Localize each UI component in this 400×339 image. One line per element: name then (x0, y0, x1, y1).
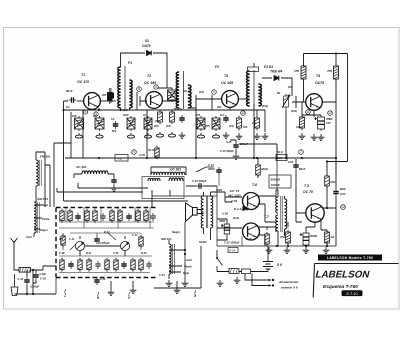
svg-text:4: 4 (155, 85, 157, 89)
svg-text:T3: T3 (224, 74, 228, 78)
svg-text:25MF: 25MF (325, 117, 333, 121)
transistor T1 (84, 93, 101, 110)
title block box (313, 264, 398, 298)
capacitor C-29 on edge (94, 277, 99, 285)
svg-text:T2: T2 (147, 74, 151, 78)
resistor R4 400 dark (107, 92, 113, 101)
svg-text:10K: 10K (296, 126, 301, 129)
resistor R1 under T1 (75, 116, 84, 131)
resistor tuner row1 7 (118, 209, 122, 223)
capacitor tuner row1 11 (150, 213, 155, 221)
svg-text:R-9: R-9 (59, 238, 64, 241)
wire x336 lower column (335, 159, 337, 246)
ground under T4 col (311, 134, 318, 140)
wire C1 input drop (64, 101, 69, 201)
wire T2 base bar (140, 88, 172, 106)
svg-text:(R7): (R7) (205, 125, 210, 128)
wire tuner mid links (63, 233, 141, 250)
svg-text:12: 12 (341, 205, 345, 209)
wire AM204 core (37, 202, 39, 233)
capacitor 0.04MkF right (333, 189, 338, 197)
capacitor C-17 (216, 167, 221, 175)
svg-text:T-6: T-6 (252, 183, 257, 187)
wire T7 collector (258, 227, 276, 232)
svg-text:OC 170: OC 170 (77, 80, 89, 84)
trimmer box atop F3 (248, 67, 259, 72)
svg-text:MkF: MkF (340, 187, 346, 191)
svg-text:(R-1): (R-1) (277, 151, 283, 154)
wire T4 base col (301, 102, 303, 115)
wire FM101 top lead (36, 152, 45, 160)
ground bottom x237 (234, 277, 241, 283)
svg-text:7: 7 (300, 150, 302, 154)
svg-text:+: + (300, 233, 302, 237)
wire mid h192 (57, 188, 143, 192)
connector block (242, 269, 251, 274)
resistor R-30 box on bus (115, 155, 128, 162)
resistor R6 under T2 (144, 116, 152, 131)
bus test point 7 (299, 150, 304, 155)
svg-text:Alimentación: Alimentación (278, 280, 299, 284)
resistor 47K right (334, 64, 339, 81)
svg-text:(C6): (C6) (166, 125, 171, 128)
svg-text:10Ω: 10Ω (277, 156, 283, 160)
electrolytic 100MF (300, 231, 309, 247)
svg-text:Negro: Negro (172, 230, 180, 234)
oscillator coil FM 101 (36, 160, 38, 186)
electrolytic 25MF 15V (315, 115, 325, 131)
resistor R9 row (170, 110, 175, 124)
wire output transformer leads (276, 190, 285, 246)
ground bottom x111 (108, 289, 115, 295)
svg-text:(R-10): (R-10) (148, 149, 155, 152)
black model bar (318, 255, 382, 261)
transformer OC 301 frame (142, 177, 184, 199)
svg-text:(R14): (R14) (291, 110, 297, 113)
wire tuner diag (70, 233, 116, 250)
svg-text:Verde: Verde (42, 217, 50, 221)
svg-text:6nF: 6nF (112, 129, 117, 133)
transformer OC 301 primary (151, 172, 185, 175)
wire tuner h272 (59, 272, 150, 274)
svg-text:AM 204: AM 204 (36, 197, 48, 201)
resistor R11 under T3 (212, 116, 220, 131)
svg-text:Verde: Verde (184, 265, 192, 269)
ground under R10 (197, 133, 204, 138)
wire T8 emitter (321, 219, 327, 232)
svg-text:60nF: 60nF (66, 89, 73, 93)
svg-text:TKB 4/4: TKB 4/4 (270, 70, 282, 74)
svg-text:Azul: Azul (185, 258, 192, 262)
wire T8 collector (322, 162, 336, 209)
svg-text:(C5): (C5) (199, 91, 204, 94)
wire 320 links (257, 158, 259, 178)
svg-text:Negro: Negro (40, 228, 48, 232)
svg-text:D1: D1 (145, 39, 149, 43)
svg-text:MkrF: MkrF (299, 167, 306, 171)
ground x185 bottom (182, 280, 189, 286)
svg-text:exterior 9 V: exterior 9 V (281, 286, 299, 290)
svg-text:2K2: 2K2 (216, 106, 222, 109)
wire AC291 leads (74, 174, 114, 178)
wire af bottom rail (217, 245, 336, 247)
capacitor C6 row (223, 115, 228, 123)
wire T1 collector to F1 (100, 100, 116, 102)
test point 12 right (341, 205, 346, 210)
wire diagonal mid (196, 167, 214, 172)
resistor tuner row2 0 (60, 258, 64, 272)
svg-text:(R4): (R4) (154, 125, 159, 128)
wire OC301 down leads (151, 167, 186, 207)
resistor under T4 (300, 115, 305, 130)
transformer OC 301 sec b (169, 178, 183, 181)
wire pot to bus (285, 110, 287, 158)
wire T3 collector to F3 (238, 98, 249, 100)
diode D-4 symbol (243, 207, 247, 211)
electrolytic 25MF AF (221, 222, 230, 236)
wire vert x196 (195, 110, 197, 158)
wire tuner h233 (70, 232, 140, 234)
wire box feed (55, 278, 57, 294)
test point 12 at T4 (328, 111, 333, 116)
svg-text:OA79: OA79 (142, 44, 151, 48)
ground under R12 (236, 133, 243, 139)
wire af component links (267, 222, 327, 246)
wire battery top lead (267, 246, 269, 262)
capacitor C-19 (24, 277, 29, 285)
svg-text:15V: 15V (326, 121, 331, 125)
wire switch column (216, 250, 218, 258)
ground bottom x220 (217, 280, 224, 286)
wire T4 emitter branch (302, 115, 321, 117)
transistor T3 (222, 91, 239, 108)
wire antenna caps net (15, 270, 57, 294)
resistor tuner row1 6 (110, 209, 114, 223)
wire mark c arrow (129, 292, 130, 298)
svg-text:10Ω: 10Ω (330, 180, 336, 184)
resistor R-1 box on bus (276, 155, 287, 161)
wire vert x137 (136, 92, 138, 110)
wire GW101 leads (169, 240, 185, 279)
IF transformer F1 (118, 66, 132, 109)
svg-text:C-28: C-28 (59, 252, 65, 255)
wire c16 link (186, 185, 217, 187)
choke GW 101 (169, 244, 171, 274)
resistor tuner row1 10 (144, 209, 148, 223)
ground AF x306 (303, 247, 310, 253)
resistor R10 under T3 (197, 116, 205, 131)
svg-text:40nF: 40nF (122, 114, 129, 117)
resistor tuner row1 0 (60, 209, 64, 223)
resistor 1ohm (325, 230, 330, 245)
svg-text:Azul: Azul (25, 235, 32, 239)
ferrite antenna rod (19, 268, 31, 273)
svg-text:R-12: R-12 (104, 231, 110, 234)
svg-text:1K5: 1K5 (243, 126, 248, 129)
driver transformer secondary (211, 196, 213, 228)
test point 6 at T1 (83, 110, 87, 114)
svg-text:512Ω: 512Ω (199, 240, 207, 244)
resistor R2 under T1 (95, 116, 104, 131)
svg-text:AC 291: AC 291 (75, 165, 87, 169)
wire mid h188 (78, 183, 148, 188)
svg-text:(6-8): (6-8) (233, 216, 239, 220)
svg-text:C1: C1 (66, 105, 70, 109)
tuning gang capacitor right (120, 241, 129, 250)
driver transformer primary (201, 196, 203, 228)
wire 25MF links (217, 219, 227, 240)
wire x217 column (216, 186, 218, 246)
wire gang link (80, 236, 125, 256)
resistor R16 mid (255, 116, 260, 130)
capacitor C-16 300pF (196, 183, 204, 188)
ground x265 (262, 133, 269, 139)
wire tuner h228 (59, 227, 154, 229)
capacitor C2 6nF (113, 121, 118, 129)
capacitor tuner row1 8 (126, 213, 131, 221)
svg-text:(C9): (C9) (229, 125, 234, 128)
wire GW101 core (172, 244, 174, 274)
wire vert x99 (98, 108, 100, 110)
wire F1 top to D1 (121, 53, 145, 67)
capacitor C1 60nF (69, 97, 77, 102)
wire x54 top (54, 142, 71, 144)
wire vert x265 (264, 110, 266, 132)
test point 4 at T2 top (154, 85, 158, 89)
wire c17 drop (218, 175, 220, 186)
svg-text:C-19: C-19 (18, 277, 24, 281)
wire mark b arrow (98, 292, 99, 298)
ground AF x287 (284, 247, 291, 253)
ground under R2 (96, 133, 103, 138)
wire F3 trimmer box lead (253, 63, 255, 67)
resistor tuner mid c (139, 235, 143, 248)
svg-text:12: 12 (328, 111, 332, 115)
wire 47K-1 to T4 base (296, 80, 306, 102)
svg-text:R-21: R-21 (86, 252, 92, 255)
capacitor C-20 3.3pF (33, 272, 38, 280)
antenna rod symbol (11, 238, 18, 246)
wire cap2MmF link (230, 140, 277, 158)
svg-text:OC 75: OC 75 (303, 190, 313, 194)
wire F2 to T3 base (188, 95, 222, 110)
svg-text:C2: C2 (111, 117, 115, 121)
svg-text:T4: T4 (316, 74, 320, 78)
wire T4 emitter down (313, 110, 315, 115)
svg-text:C-30: C-30 (246, 237, 252, 241)
svg-text:4,7Ω: 4,7Ω (138, 153, 146, 157)
ground under R6 (144, 133, 151, 138)
ground AF x326 (323, 247, 330, 253)
svg-text:0,04: 0,04 (288, 160, 294, 164)
svg-text:11: 11 (306, 110, 310, 114)
resistor 320ohm (256, 163, 261, 177)
svg-text:C-29: C-29 (100, 278, 106, 281)
wire x185 column (184, 222, 186, 280)
svg-text:GW 101: GW 101 (161, 237, 172, 241)
svg-text:T 8: T 8 (304, 184, 309, 188)
svg-text:C-16 300pF: C-16 300pF (192, 179, 207, 183)
wire 47K-2 down (335, 79, 337, 95)
coil AC 291 (82, 171, 108, 174)
wire bottom rail (133, 246, 201, 288)
svg-text:OC 301: OC 301 (170, 168, 181, 172)
wire mid h201 (64, 200, 189, 202)
svg-text:10: 10 (241, 111, 245, 115)
svg-text:9: 9 (213, 90, 215, 94)
wire FM101 core (39, 160, 41, 186)
wire T4 collector (322, 95, 336, 176)
svg-text:T1: T1 (81, 73, 85, 77)
svg-text:9 V: 9 V (277, 263, 283, 267)
svg-text:6: 6 (85, 110, 87, 114)
svg-text:47Ω: 47Ω (279, 235, 286, 239)
test point 10 at T3 (241, 111, 246, 116)
svg-text:500/2Ω: 500/2Ω (271, 178, 281, 182)
wire FM101 bottom lead (35, 186, 37, 202)
svg-text:OC 74: OC 74 (230, 189, 239, 193)
wire x242 column (241, 236, 243, 246)
wire speaker links (197, 192, 225, 240)
ground under T4 resistor (299, 133, 306, 139)
wire F1 bottom stub (121, 108, 130, 110)
wire T6 T7 emitters (258, 204, 276, 246)
resistor R7 T2 bias (168, 88, 177, 102)
svg-text:OC75: OC75 (315, 81, 324, 85)
resistor R12 T3 col (237, 116, 242, 130)
capacitor tuner row1 5 (100, 213, 105, 221)
resistor 267 (265, 232, 270, 246)
svg-text:47K: 47K (326, 69, 333, 73)
wire T6 base (225, 192, 242, 202)
output transformer ratio box (269, 175, 291, 188)
resistor tuner mid a (61, 234, 65, 247)
svg-text:9: 9 (133, 150, 135, 154)
ground bottom x177 (174, 287, 181, 293)
power switch (217, 258, 223, 272)
wire vert x147 (146, 110, 148, 158)
transistor T2 (146, 92, 163, 109)
badge E-T-10 (342, 290, 363, 296)
wire T2 collector to F2 (162, 100, 179, 102)
resistor tuner row2 2 (78, 258, 82, 272)
wire vert x212 (211, 95, 213, 110)
wire mark d arrow (195, 290, 196, 296)
svg-text:1K: 1K (143, 114, 146, 117)
ground under C4 (179, 132, 186, 138)
output transformer secondary (285, 199, 287, 229)
svg-text:Esquema T-760: Esquema T-760 (323, 284, 358, 290)
svg-text:100MF: 100MF (310, 235, 318, 238)
external supply terminal 2 (266, 285, 270, 287)
svg-text:+: + (315, 117, 317, 121)
driver transformer core (206, 196, 207, 228)
svg-text:3,3pF: 3,3pF (39, 272, 46, 276)
svg-text:25n: 25n (177, 108, 183, 111)
wire ferrite to box (31, 266, 57, 270)
wire T1 base lead (77, 100, 84, 102)
svg-text:C-25 1000pF: C-25 1000pF (224, 241, 240, 245)
svg-text:10K: 10K (72, 115, 77, 118)
telescopic antenna symbol (11, 274, 18, 296)
wire T7 base (217, 227, 242, 229)
svg-text:C-15 300pF: C-15 300pF (220, 149, 234, 153)
svg-text:(D3): (D3) (288, 86, 293, 89)
resistor tuner row2 5 (105, 258, 109, 272)
wire tuner v drops (66, 207, 150, 228)
ground under C6 (223, 132, 230, 138)
loudspeaker (186, 203, 198, 222)
capacitor 0.04 mid (293, 162, 298, 170)
svg-text:C-11: C-11 (69, 238, 75, 241)
ground bottom x133 (130, 287, 137, 293)
resistor tuner row1 1 (68, 209, 72, 223)
test point 8 at T2 (137, 87, 142, 92)
wire ground x111 stem (110, 281, 112, 289)
wire vert x230 (229, 107, 231, 110)
external supply terminal 1 (266, 279, 270, 281)
transistor T-6 OC74 (243, 193, 260, 210)
capacitor tuner mid b (94, 236, 99, 244)
IF transformer F2 (176, 71, 191, 109)
wire T6 collector (258, 190, 276, 198)
svg-text:C-23: C-23 (159, 273, 165, 277)
svg-text:4K7: 4K7 (92, 115, 98, 118)
transformer OC 301 sec a (148, 178, 160, 181)
svg-text:C-20: C-20 (40, 277, 46, 281)
wire AF v277 (276, 144, 278, 190)
resistor R5 under T2 (127, 116, 135, 131)
wire top right rail (304, 54, 348, 162)
output transformer primary upper (276, 197, 278, 213)
svg-text:C-17: C-17 (208, 163, 214, 167)
capacitor tuner row2 4 (95, 261, 100, 269)
svg-text:R-24: R-24 (229, 249, 236, 253)
ground under R11 (212, 133, 219, 138)
ground under 25MF (318, 134, 325, 140)
svg-text:LABELSON Modelo T-760: LABELSON Modelo T-760 (327, 256, 373, 260)
resistor tuner row2 8 (131, 258, 135, 272)
capacitor C4 row (179, 115, 184, 123)
wire F3 bottom stub (253, 104, 255, 158)
wire battery loop (217, 270, 268, 272)
test point 5 at T1 (94, 112, 98, 116)
resistor on bus x157 (155, 146, 159, 159)
wire R16 top (256, 110, 258, 116)
tuning gang capacitor left (75, 241, 84, 250)
wire detector row (262, 78, 296, 108)
svg-text:0,04: 0,04 (340, 192, 346, 196)
svg-text:8: 8 (138, 87, 140, 91)
antenna lead down (14, 246, 19, 270)
ground under R8 (156, 132, 163, 137)
test point 9 at T3 (212, 90, 217, 95)
svg-text:2MnF: 2MnF (207, 167, 215, 171)
svg-text:10n: 10n (252, 122, 257, 125)
IF transformer F3 (247, 70, 262, 107)
wire emitter bus top section (63, 109, 265, 111)
svg-text:(R12): (R12) (262, 105, 268, 108)
capacitor 2MmF (233, 142, 238, 150)
svg-text:+: + (221, 224, 223, 228)
resistor tuner row1 3 (85, 209, 89, 223)
wire vert x45 (44, 152, 46, 207)
resistor tuner row1 9 (136, 209, 140, 223)
resistor R8 row (158, 110, 163, 124)
resistor R-24 box (228, 248, 238, 253)
svg-text:25MF: 25MF (218, 220, 226, 223)
capacitor dark left of F1 (108, 93, 114, 99)
